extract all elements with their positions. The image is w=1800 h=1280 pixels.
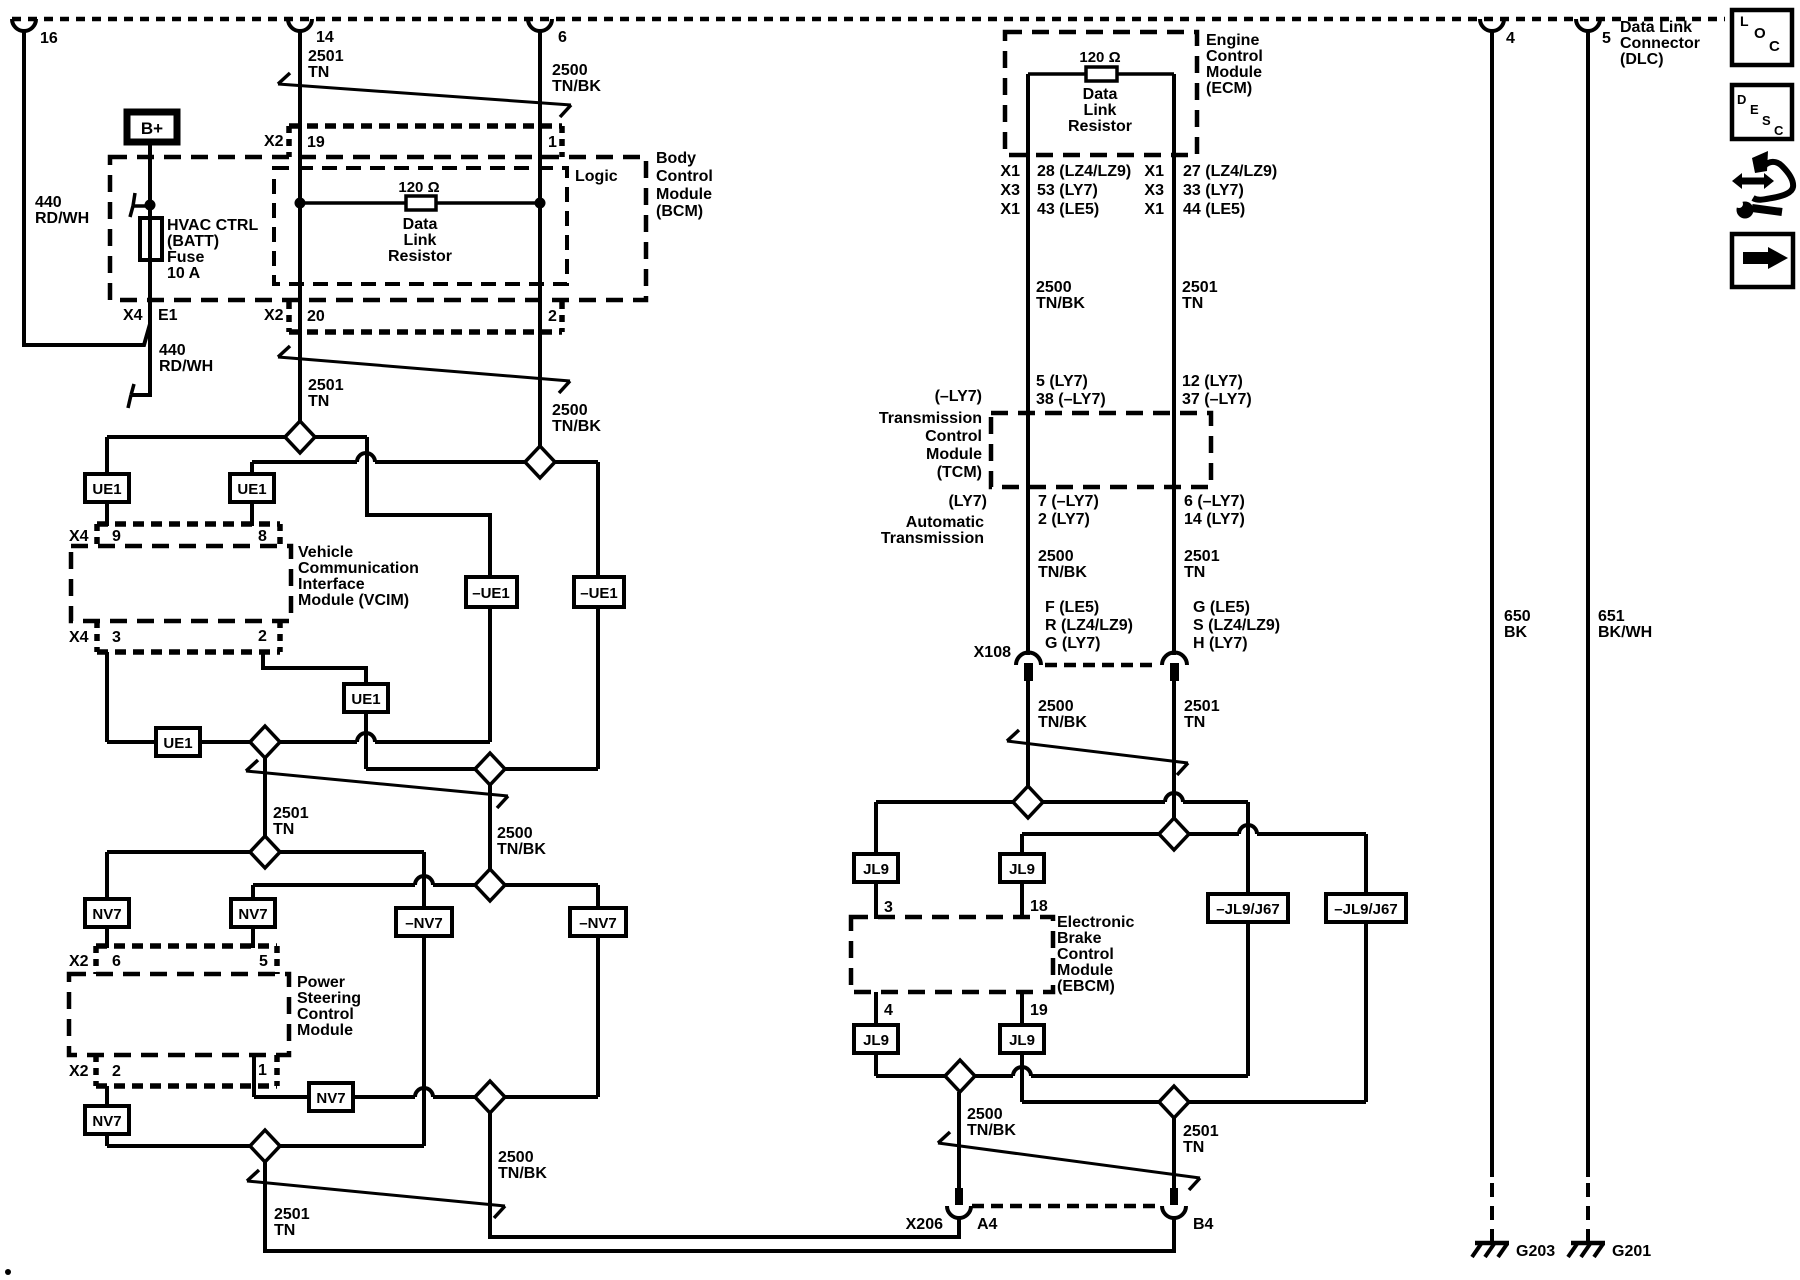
svg-text:TN/BK: TN/BK <box>552 78 601 95</box>
svg-text:X3: X3 <box>1144 182 1164 199</box>
Engine Control Module dashed box <box>1005 32 1197 155</box>
fuse -JL9/J67 left <box>1208 894 1288 922</box>
svg-text:TN/BK: TN/BK <box>552 418 601 435</box>
fuse JL9 upper left <box>854 854 898 882</box>
wire 651 BK/WH from DLC pin 5 to ground <box>1586 31 1590 1177</box>
svg-text:TN/BK: TN/BK <box>1038 564 1087 581</box>
wire 2501 branch down to -NV7 <box>422 852 426 908</box>
svg-text:L: L <box>1740 13 1749 29</box>
wire bus corner down to NV7 PSCM pin 2 <box>105 1135 109 1146</box>
splice diamond on 2501 at PSCM <box>250 836 280 868</box>
DLC pin 4 connector cup <box>1480 19 1504 31</box>
automatic transmission dashed boundary at X108 <box>1045 663 1158 668</box>
svg-text:Interface: Interface <box>298 576 365 593</box>
svg-text:Power: Power <box>297 974 345 991</box>
twisted pair crossover arrow mid left <box>246 771 508 796</box>
svg-text:650: 650 <box>1504 608 1531 625</box>
resistor 120 ohm in BCM <box>406 196 436 210</box>
svg-text:(DLC): (DLC) <box>1620 51 1664 68</box>
svg-text:Fuse: Fuse <box>167 249 204 266</box>
diagnostic arrows and wrench icon <box>1732 151 1793 219</box>
junction dot right of BCM resistor <box>535 198 546 209</box>
Electronic Brake Control Module dashed box <box>851 917 1053 992</box>
svg-text:Brake: Brake <box>1057 930 1102 947</box>
wire VCIM pin 2 to UE1 <box>263 652 366 684</box>
fuse UE1 upper middle <box>230 474 274 502</box>
svg-text:TN/BK: TN/BK <box>497 841 546 858</box>
fuse UE1 below VCIM pin 2 <box>344 684 388 712</box>
X108 wire end tick right <box>1170 663 1179 681</box>
svg-text:Automatic: Automatic <box>906 514 984 531</box>
hop of 2500 PSCM bus over -NV7 branch <box>415 876 433 885</box>
svg-text:4: 4 <box>884 1002 893 1019</box>
X206 connector dashed line <box>972 1204 1161 1209</box>
svg-text:Module: Module <box>1057 962 1113 979</box>
svg-text:(ECM): (ECM) <box>1206 80 1252 97</box>
svg-text:37 (–LY7): 37 (–LY7) <box>1182 391 1252 408</box>
svg-text:Resistor: Resistor <box>1068 118 1132 135</box>
svg-text:Module: Module <box>656 186 712 203</box>
svg-text:JL9: JL9 <box>1009 1032 1035 1049</box>
svg-text:6: 6 <box>112 953 121 970</box>
wire minus UE1 right chain to 2500 bus <box>596 462 600 577</box>
X206 connector cup A4 <box>947 1206 971 1218</box>
wire 2500 TN/BK from X108 to EBCM splice <box>1026 679 1030 802</box>
DLC pin 6 connector cup <box>528 19 552 31</box>
svg-text:TN: TN <box>1184 564 1205 581</box>
bus from -UE1 to VCIM pin 3 with hop <box>375 740 490 744</box>
svg-text:440: 440 <box>159 342 186 359</box>
BCM X2 strip right separator top <box>559 126 565 157</box>
X206 wire end tick A4 <box>955 1188 963 1205</box>
svg-text:19: 19 <box>307 134 325 151</box>
svg-text:53 (LY7): 53 (LY7) <box>1037 182 1098 199</box>
svg-text:10 A: 10 A <box>167 265 201 282</box>
svg-text:Communication: Communication <box>298 560 419 577</box>
wire UE1 to VCIM pin 8 <box>250 502 254 526</box>
BCM X2 strip right separator bottom <box>559 302 565 332</box>
svg-text:O: O <box>1754 25 1766 42</box>
X206 connector cup B4 <box>1162 1206 1186 1218</box>
B+ battery feed symbol <box>127 112 177 142</box>
svg-text:C: C <box>1774 123 1784 138</box>
fuse JL9 lower right <box>1000 1025 1044 1053</box>
fuse JL9 lower left <box>854 1025 898 1053</box>
dashed wire end 650 <box>1490 1183 1494 1245</box>
fuse -JL9/J67 right <box>1326 894 1406 922</box>
svg-text:X4: X4 <box>69 528 89 545</box>
svg-text:G201: G201 <box>1612 1243 1651 1260</box>
wire JL9 pin4 down to bus <box>874 1053 878 1076</box>
twisted pair crossover arrow top <box>278 84 571 105</box>
svg-text:440: 440 <box>35 194 62 211</box>
DLC pin 5 connector cup <box>1576 19 1600 31</box>
svg-text:–UE1: –UE1 <box>472 585 510 602</box>
fuse -NV7 left <box>396 908 452 936</box>
splice diamond 2501 EBCM top <box>1159 818 1189 850</box>
BCM X2 connector strip bottom edge <box>289 329 562 335</box>
twisted pair crossover arrow above X206 <box>938 1143 1200 1178</box>
svg-text:651: 651 <box>1598 608 1625 625</box>
svg-text:Resistor: Resistor <box>388 248 452 265</box>
splice diamond bottom left 2501 <box>250 1130 280 1162</box>
svg-text:Module: Module <box>1206 64 1262 81</box>
svg-text:A4: A4 <box>977 1216 998 1233</box>
DLC connector dashed bus line <box>12 17 1725 22</box>
bus 2500 at EBCM top with hop <box>876 800 1165 804</box>
wire -JL9/J67 down to EBCM pin4 bus <box>1246 922 1250 1076</box>
wire -UE1 down to VCIM pin3 bus <box>488 607 492 742</box>
bus PSCM pin 1 to splice with hop <box>254 1095 415 1099</box>
splice diamond on pin3 bus 2501 <box>250 726 280 758</box>
svg-text:19: 19 <box>1030 1002 1048 1019</box>
wire 440 RD/WH from B+ through fuse <box>131 145 150 395</box>
svg-text:2500: 2500 <box>967 1106 1003 1123</box>
svg-text:RD/WH: RD/WH <box>35 210 89 227</box>
splice diamond 2500 EBCM bottom <box>945 1060 975 1092</box>
svg-text:–UE1: –UE1 <box>580 585 618 602</box>
svg-text:14 (LY7): 14 (LY7) <box>1184 511 1245 528</box>
svg-text:G (LY7): G (LY7) <box>1045 635 1100 652</box>
svg-text:2501: 2501 <box>1184 548 1220 565</box>
splice stub to other circuits at fuse feed <box>133 204 150 208</box>
wire 2501 TN from DLC pin 14 down through BCM to splice <box>298 29 302 437</box>
svg-text:2501: 2501 <box>1184 698 1220 715</box>
svg-text:Control: Control <box>1206 48 1263 65</box>
wire -NV7 right down to PSCM pin1 bus <box>596 936 600 1097</box>
svg-text:Data Link: Data Link <box>1620 19 1692 36</box>
ground G201 symbol <box>1571 1241 1605 1246</box>
wire 2501 TN from ECM resistor to TCM and X108 <box>1172 74 1176 655</box>
svg-text:UE1: UE1 <box>237 481 266 498</box>
svg-text:(LY7): (LY7) <box>948 493 987 510</box>
wire from 2500 bus down to UE1 VCIM pin 8 <box>250 462 254 474</box>
wire JL9 to EBCM pin 18 <box>1020 882 1024 919</box>
splice bus 2501 at VCIM level <box>107 435 367 439</box>
junction dot at fuse feed <box>145 200 156 211</box>
svg-text:NV7: NV7 <box>92 906 121 923</box>
svg-text:Connector: Connector <box>1620 35 1700 52</box>
svg-text:2500: 2500 <box>497 825 533 842</box>
svg-text:3: 3 <box>112 629 121 646</box>
fuse UE1 on pin3 bus <box>156 728 200 756</box>
svg-text:Data: Data <box>1083 86 1118 103</box>
svg-text:2501: 2501 <box>1182 279 1218 296</box>
page corner dot <box>5 1269 11 1275</box>
svg-text:H (LY7): H (LY7) <box>1193 635 1248 652</box>
X2 connector strip bottom of PSCM <box>96 1083 277 1089</box>
svg-text:Transmission: Transmission <box>879 410 982 427</box>
svg-text:(BCM): (BCM) <box>656 203 703 220</box>
svg-text:E1: E1 <box>158 307 178 324</box>
svg-text:TN/BK: TN/BK <box>498 1165 547 1182</box>
svg-text:2 (LY7): 2 (LY7) <box>1038 511 1090 528</box>
svg-text:28 (LZ4/LZ9): 28 (LZ4/LZ9) <box>1037 163 1131 180</box>
svg-text:Data: Data <box>403 216 438 233</box>
svg-text:UE1: UE1 <box>351 691 380 708</box>
hop of 2500 EBCM bus over 2501 wire <box>1165 793 1183 802</box>
svg-text:B+: B+ <box>141 119 163 138</box>
svg-text:5 (LY7): 5 (LY7) <box>1036 373 1088 390</box>
svg-text:Module: Module <box>926 446 982 463</box>
svg-text:X108: X108 <box>974 644 1011 661</box>
svg-text:18: 18 <box>1030 898 1048 915</box>
svg-text:TN: TN <box>273 821 294 838</box>
svg-text:NV7: NV7 <box>316 1090 345 1107</box>
wire JL9 pin19 down to 2501 bus <box>1020 1053 1024 1102</box>
svg-text:TN/BK: TN/BK <box>967 1122 1016 1139</box>
splice diamond 2501 EBCM bottom <box>1159 1086 1189 1118</box>
fuse -UE1 left <box>466 577 517 607</box>
svg-text:(EBCM): (EBCM) <box>1057 978 1115 995</box>
svg-text:2501: 2501 <box>308 377 344 394</box>
svg-text:JL9: JL9 <box>863 861 889 878</box>
svg-text:2500: 2500 <box>1038 698 1074 715</box>
wire 2500 TN/BK from ECM resistor to TCM and X108 <box>1026 74 1030 655</box>
svg-text:X2: X2 <box>264 133 284 150</box>
wire PSCM pin 1 down to bus <box>252 1055 256 1097</box>
wire 2500 TN/BK from DLC pin 6 down through BCM to splice <box>538 29 542 462</box>
svg-text:Link: Link <box>404 232 437 249</box>
svg-text:BK/WH: BK/WH <box>1598 624 1652 641</box>
svg-text:2501: 2501 <box>1183 1123 1219 1140</box>
svg-text:JL9: JL9 <box>863 1032 889 1049</box>
svg-text:X2: X2 <box>264 307 284 324</box>
svg-text:Control: Control <box>925 428 982 445</box>
svg-text:S: S <box>1762 113 1771 128</box>
Transmission Control Module dashed box <box>991 413 1211 487</box>
svg-text:X1: X1 <box>1144 163 1164 180</box>
wire 2500 branch to -JL9/J67 <box>1246 802 1250 894</box>
X206 wire end tick B4 <box>1170 1188 1178 1205</box>
svg-text:Module: Module <box>297 1022 353 1039</box>
X4 connector strip bottom of VCIM <box>97 649 280 655</box>
svg-text:7 (–LY7): 7 (–LY7) <box>1038 493 1099 510</box>
twisted pair crossover arrow bottom left <box>247 1181 505 1206</box>
svg-text:Control: Control <box>297 1006 354 1023</box>
wire -UE1 right down to splice bus <box>596 607 600 769</box>
svg-text:Module (VCIM): Module (VCIM) <box>298 592 409 609</box>
wire bus down to JL9 EBCM pin 3 <box>874 802 878 854</box>
wire 2501 TN from X108 to EBCM splice <box>1172 679 1176 834</box>
svg-text:Logic: Logic <box>575 168 618 185</box>
svg-text:X1: X1 <box>1000 201 1020 218</box>
svg-text:14: 14 <box>316 29 334 46</box>
BCM X2 strip left separator top <box>286 126 292 157</box>
svg-text:JL9: JL9 <box>1009 861 1035 878</box>
wire 2501 TN drop from bottom splice to X206 B4 line <box>265 1162 1174 1251</box>
svg-text:2500: 2500 <box>552 402 588 419</box>
twisted pair crossover arrow above EBCM <box>1007 741 1188 763</box>
hop of pin1 bus over -NV7 branch <box>415 1088 433 1097</box>
svg-text:TN/BK: TN/BK <box>1038 714 1087 731</box>
splice bus 2501 at PSCM level <box>107 850 424 854</box>
hop of 2501 EBCM bus over -JL9 branch <box>1239 825 1257 834</box>
svg-text:E: E <box>1750 102 1759 117</box>
fuse HVAC CTRL (BATT) 10 A symbol <box>140 218 162 260</box>
X108 wire end tick left <box>1024 663 1033 681</box>
svg-text:X3: X3 <box>1000 182 1020 199</box>
svg-text:TN: TN <box>1182 295 1203 312</box>
svg-text:6 (–LY7): 6 (–LY7) <box>1184 493 1245 510</box>
svg-text:Control: Control <box>1057 946 1114 963</box>
wire JL9 to EBCM pin 3 <box>874 882 878 919</box>
resistor 120 ohm in ECM <box>1086 67 1117 81</box>
wire 2501 TN drop from VCIM bus to PSCM bus <box>263 757 267 837</box>
svg-text:–JL9/J67: –JL9/J67 <box>1216 901 1279 918</box>
wire 2500 TN/BK drop to PSCM bus <box>488 785 492 869</box>
wire 2500 branch down to -NV7 right <box>596 885 600 908</box>
bus 2501 at EBCM bottom <box>1022 1100 1366 1104</box>
svg-text:X1: X1 <box>1144 201 1164 218</box>
svg-text:TN: TN <box>274 1222 295 1239</box>
svg-text:12 (LY7): 12 (LY7) <box>1182 373 1243 390</box>
svg-text:RD/WH: RD/WH <box>159 358 213 375</box>
wire from bus down to UE1 fuse VCIM pin 9 <box>105 437 109 474</box>
svg-text:D: D <box>1737 92 1746 107</box>
junction dot left of BCM resistor <box>295 198 306 209</box>
bus 2500 at EBCM bottom with hop <box>876 1074 1013 1078</box>
svg-text:2500: 2500 <box>1038 548 1074 565</box>
wire 2501 branch to -JL9/J67 right <box>1364 834 1368 894</box>
twisted pair crossover arrow below BCM <box>278 357 570 381</box>
svg-text:2: 2 <box>258 628 267 645</box>
wire NV7 to PSCM pin 5 <box>251 927 255 948</box>
wire 2500 TN/BK drop from splice to X206 A4 line <box>490 1113 959 1237</box>
ground G203 symbol <box>1475 1241 1509 1246</box>
svg-text:X4: X4 <box>123 307 143 324</box>
fuse NV7 lower left <box>85 1106 129 1134</box>
svg-text:2500: 2500 <box>1036 279 1072 296</box>
wire below X206 B4 cup <box>1172 1218 1176 1251</box>
svg-text:33 (LY7): 33 (LY7) <box>1183 182 1244 199</box>
wire below X206 A4 cup <box>957 1218 961 1237</box>
splice diamond on 2500 at PSCM <box>475 869 505 901</box>
svg-text:UE1: UE1 <box>163 735 192 752</box>
svg-text:(BATT): (BATT) <box>167 233 219 250</box>
svg-text:R (LZ4/LZ9): R (LZ4/LZ9) <box>1045 617 1133 634</box>
svg-text:1: 1 <box>258 1062 267 1079</box>
wire 2501 branch to minus UE1 chain <box>367 437 490 577</box>
wire -JL9/J67 right down to EBCM pin19 bus <box>1364 922 1368 1102</box>
wire UE1 pin2 branch down to 2500 splice bus <box>364 712 368 769</box>
Body Control Module outer dashed box <box>110 157 646 300</box>
svg-text:X4: X4 <box>69 629 89 646</box>
bus 2501 at EBCM top with hop <box>1022 832 1239 836</box>
svg-text:NV7: NV7 <box>238 906 267 923</box>
svg-text:TN: TN <box>1184 714 1205 731</box>
Power Steering Control Module dashed box <box>69 974 289 1055</box>
svg-text:4: 4 <box>1506 30 1515 47</box>
svg-text:Engine: Engine <box>1206 32 1259 49</box>
svg-text:–NV7: –NV7 <box>405 915 443 932</box>
svg-text:2: 2 <box>548 308 557 325</box>
Vehicle Communication Interface Module dashed box <box>71 546 291 621</box>
svg-text:2501: 2501 <box>308 48 344 65</box>
svg-text:NV7: NV7 <box>92 1113 121 1130</box>
svg-text:5: 5 <box>1602 30 1611 47</box>
svg-text:2500: 2500 <box>552 62 588 79</box>
BCM Logic inner dashed box <box>274 168 567 284</box>
X108 connector dome left <box>1016 652 1041 665</box>
svg-text:–NV7: –NV7 <box>579 915 617 932</box>
svg-text:8: 8 <box>258 528 267 545</box>
wire NV7 to PSCM pin 6 <box>105 927 109 948</box>
ECM data link resistor bus wire <box>1028 72 1174 76</box>
svg-text:120 Ω: 120 Ω <box>1079 49 1120 66</box>
svg-text:20: 20 <box>307 308 325 325</box>
svg-text:Control: Control <box>656 168 713 185</box>
wire 440 RD/WH from DLC pin 16 down and right to BCM X4 pin E1 <box>24 29 150 345</box>
svg-text:1: 1 <box>548 134 557 151</box>
wire bus down to NV7 PSCM pin 5 <box>251 885 255 899</box>
svg-text:2: 2 <box>112 1063 121 1080</box>
bus 2500 at VCIM level with hop <box>252 460 357 464</box>
svg-text:F (LE5): F (LE5) <box>1045 599 1099 616</box>
splice diamond on 2500 at VCIM <box>525 446 555 478</box>
splice diamond on 2501 at VCIM <box>285 421 315 453</box>
svg-text:X206: X206 <box>906 1216 943 1233</box>
DLC pin 16 connector cup <box>12 19 36 31</box>
svg-text:(–LY7): (–LY7) <box>935 388 982 405</box>
hop of 2500 bottom bus over pin19 wire <box>1013 1067 1031 1076</box>
fuse -UE1 right <box>574 577 624 607</box>
svg-text:6: 6 <box>558 29 567 46</box>
splice bus 2501 bottom left <box>107 1144 424 1148</box>
fuse JL9 upper right <box>1000 854 1044 882</box>
DLC pin 14 connector cup <box>288 19 312 31</box>
dashed wire end 651 <box>1586 1183 1590 1245</box>
splice diamond 2500 EBCM top <box>1013 786 1043 818</box>
fuse NV7 upper middle <box>231 899 275 927</box>
svg-text:HVAC CTRL: HVAC CTRL <box>167 217 258 234</box>
X2 connector strip top of PSCM <box>96 943 277 949</box>
svg-text:TN: TN <box>308 64 329 81</box>
svg-text:16: 16 <box>40 30 58 47</box>
svg-text:C: C <box>1769 38 1780 55</box>
svg-text:BK: BK <box>1504 624 1528 641</box>
svg-text:UE1: UE1 <box>92 481 121 498</box>
svg-text:Link: Link <box>1084 102 1117 119</box>
svg-text:3: 3 <box>884 899 893 916</box>
svg-text:S (LZ4/LZ9): S (LZ4/LZ9) <box>1193 617 1280 634</box>
svg-text:X2: X2 <box>69 1063 89 1080</box>
svg-text:X2: X2 <box>69 953 89 970</box>
wire 2500 TN/BK drop to X206 A4 <box>957 1092 961 1190</box>
wire EBCM pin 19 to JL9 <box>1020 992 1024 1025</box>
splice diamond on pin1 bus 2500 <box>475 1081 505 1113</box>
svg-text:120 Ω: 120 Ω <box>398 179 439 196</box>
wire UE1 to VCIM pin 9 <box>105 502 109 526</box>
hook flare below fuse wire end <box>131 384 134 395</box>
svg-text:X1: X1 <box>1000 163 1020 180</box>
svg-text:38 (–LY7): 38 (–LY7) <box>1036 391 1106 408</box>
svg-text:44 (LE5): 44 (LE5) <box>1183 201 1245 218</box>
svg-text:(TCM): (TCM) <box>937 464 982 481</box>
svg-text:2500: 2500 <box>498 1149 534 1166</box>
wire EBCM pin 4 to JL9 <box>874 992 878 1025</box>
svg-text:Transmission: Transmission <box>881 530 984 547</box>
forward arrow legend icon box <box>1732 234 1793 287</box>
hop of pin3 bus over UE1 branch <box>357 733 375 742</box>
svg-text:B4: B4 <box>1193 1216 1214 1233</box>
BCM X2 strip left separator bottom <box>286 302 292 332</box>
svg-text:G203: G203 <box>1516 1243 1555 1260</box>
svg-text:9: 9 <box>112 528 121 545</box>
svg-text:5: 5 <box>259 953 268 970</box>
svg-text:Vehicle: Vehicle <box>298 544 353 561</box>
hop of 2500 bus over 2501 branch <box>357 453 375 462</box>
